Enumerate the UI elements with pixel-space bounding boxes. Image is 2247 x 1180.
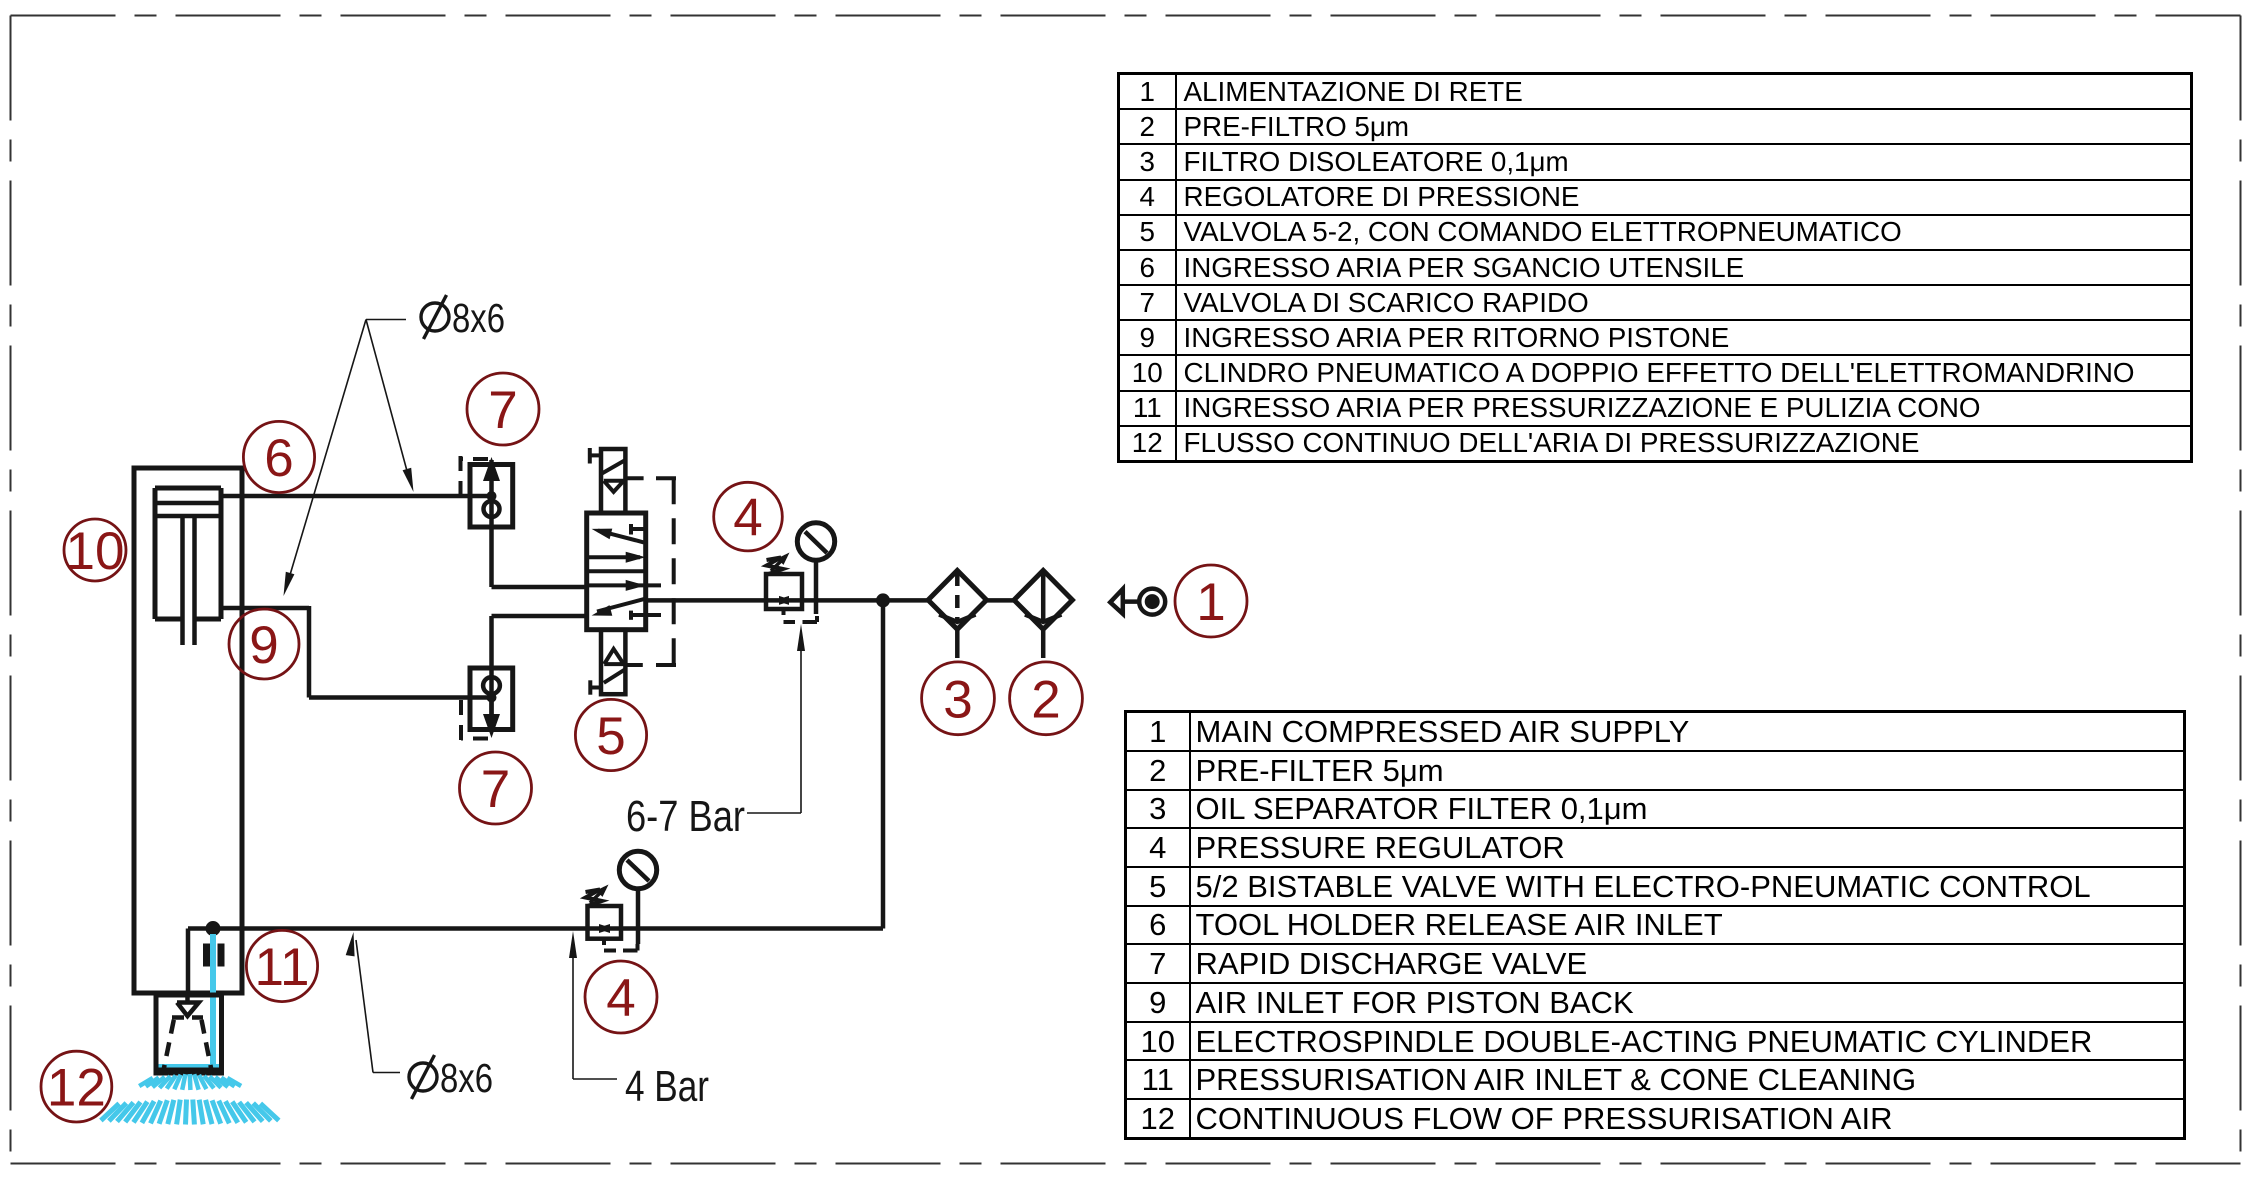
svg-text:8x6: 8x6 xyxy=(440,1055,493,1101)
svg-text:6: 6 xyxy=(264,429,293,488)
svg-text:8x6: 8x6 xyxy=(452,295,505,341)
svg-text:9: 9 xyxy=(249,616,278,675)
svg-text:4 Bar: 4 Bar xyxy=(625,1062,709,1111)
svg-text:5: 5 xyxy=(596,707,625,766)
svg-text:4: 4 xyxy=(733,489,762,548)
svg-text:3: 3 xyxy=(943,670,972,729)
svg-text:10: 10 xyxy=(66,522,125,581)
svg-text:4: 4 xyxy=(606,969,635,1028)
svg-text:2: 2 xyxy=(1031,670,1060,729)
svg-text:6-7 Bar: 6-7 Bar xyxy=(626,792,745,841)
svg-text:7: 7 xyxy=(481,760,510,819)
svg-text:7: 7 xyxy=(488,381,517,440)
svg-text:11: 11 xyxy=(254,938,309,997)
svg-text:1: 1 xyxy=(1196,573,1225,632)
svg-text:12: 12 xyxy=(47,1059,106,1118)
